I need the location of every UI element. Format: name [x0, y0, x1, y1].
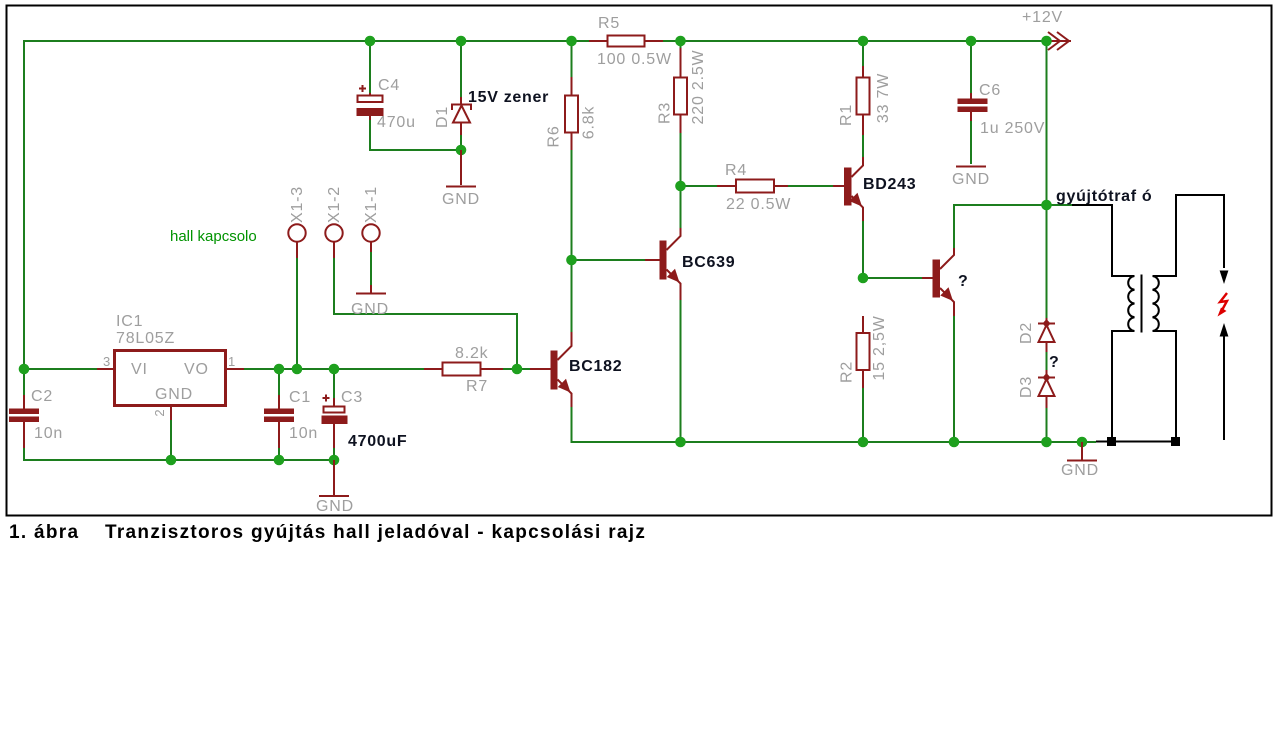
svg-text:D1: D1 — [434, 106, 451, 128]
svg-text:IC1: IC1 — [116, 313, 143, 330]
junction BD243 emitter/R2 node — [858, 273, 869, 284]
junction R2 at bus — [858, 437, 869, 448]
wire +12V down to trafo node — [1046, 41, 1048, 205]
wire C4 bottom to D1 node — [370, 120, 461, 150]
spark symbol (red) — [1220, 293, 1227, 312]
resistor R1 — [838, 66, 892, 135]
svg-text:+12V: +12V — [1022, 9, 1063, 26]
junction D1 at +12V rail — [456, 36, 467, 47]
wire 5V rail middle — [244, 368, 424, 370]
wire C1 top — [278, 369, 280, 395]
svg-text:R4: R4 — [725, 162, 747, 179]
resistor R6 — [546, 77, 598, 150]
wire BC639 emitter down — [680, 300, 682, 442]
wire D2 to D3 — [1046, 345, 1048, 374]
junction C2 at 5V rail — [19, 364, 30, 375]
transformer T1 ignition coil — [1072, 195, 1224, 440]
svg-text:33 7W: 33 7W — [875, 73, 892, 123]
svg-text:GND: GND — [155, 386, 193, 403]
wire R4 to BD243 base — [788, 185, 833, 187]
junction X1-2 wire at 5V rail — [512, 364, 523, 375]
spark gap lower arrow and line — [1220, 323, 1229, 337]
svg-text:2: 2 — [152, 409, 167, 416]
svg-text:R3: R3 — [657, 102, 674, 124]
svg-text:3: 3 — [103, 354, 110, 369]
junction GND at bus — [1077, 437, 1088, 448]
junction +12V rail right corner — [1041, 36, 1052, 47]
svg-text:C2: C2 — [31, 388, 53, 405]
svg-text:6.8k: 6.8k — [581, 106, 598, 140]
junction Q? emitter at bus — [949, 437, 960, 448]
svg-text:10n: 10n — [34, 425, 63, 442]
wire C3 top — [333, 369, 335, 398]
junction D3 at bus — [1041, 437, 1052, 448]
svg-text:8.2k: 8.2k — [455, 345, 489, 362]
wire Q? collector to trafo node — [954, 205, 1047, 248]
wire R2 bottom to bus — [862, 388, 864, 442]
svg-text:C1: C1 — [289, 389, 311, 406]
svg-text:X1-1: X1-1 — [363, 186, 380, 223]
resistor R2 — [839, 315, 889, 388]
junction X1-3 at 5V rail — [292, 364, 303, 375]
svg-text:GND: GND — [316, 498, 354, 515]
black junction dot left — [1107, 437, 1116, 446]
svg-text:4700uF: 4700uF — [348, 433, 407, 450]
wire C1 bottom — [278, 448, 280, 460]
resistor R3 — [657, 48, 708, 133]
svg-text:BC639: BC639 — [682, 254, 735, 271]
spark gap upper arrow — [1220, 271, 1229, 285]
wire BD243 emitter to node — [862, 221, 864, 278]
svg-text:X1-3: X1-3 — [289, 186, 306, 223]
svg-text:VI: VI — [131, 361, 148, 378]
svg-text:Tranzisztoros gyújtás hall jel: Tranzisztoros gyújtás hall jeladóval - k… — [105, 522, 646, 543]
wire trafo node right — [1047, 204, 1073, 206]
capacitor C2 — [9, 388, 63, 448]
junction C4/D1/GND node — [456, 145, 467, 156]
wire D1 top — [460, 41, 462, 97]
resistor R5 — [589, 15, 672, 68]
svg-text:15V zener: 15V zener — [468, 89, 549, 106]
junction C1 at 5V rail — [274, 364, 285, 375]
wire D1 bottom — [460, 135, 462, 150]
junction C6 at +12V rail — [966, 36, 977, 47]
svg-text:470u: 470u — [377, 114, 416, 131]
wire top rail right part — [663, 40, 1047, 42]
capacitor C1 — [264, 389, 318, 448]
svg-text:BD243: BD243 — [863, 176, 916, 193]
junction BC639 emitter at bus — [675, 437, 686, 448]
svg-text:1u 250V: 1u 250V — [980, 120, 1045, 137]
svg-text:R6: R6 — [546, 125, 563, 147]
wire bottom ground bus (left section) — [24, 448, 334, 460]
svg-text:1: 1 — [228, 354, 235, 369]
wire 5V rail left — [24, 368, 97, 370]
wire C3 bottom — [333, 448, 335, 460]
svg-text:hall kapcsolo: hall kapcsolo — [170, 228, 257, 245]
connector pad X1-3 — [288, 186, 306, 258]
svg-text:X1-2: X1-2 — [326, 186, 343, 223]
svg-text:R5: R5 — [598, 15, 620, 32]
wire R1 top — [862, 41, 864, 66]
svg-text:GND: GND — [1061, 462, 1099, 479]
connector pad X1-1 — [362, 186, 380, 252]
junction C3 at 5V rail — [329, 364, 340, 375]
svg-text:78L05Z: 78L05Z — [116, 330, 175, 347]
wire R3 bottom to R4 node — [681, 133, 718, 186]
svg-text:C4: C4 — [378, 77, 400, 94]
capacitor C3 electrolytic 4700uF — [322, 389, 408, 450]
wire X1-1 down — [370, 252, 372, 285]
svg-text:gyújtótraf ó: gyújtótraf ó — [1056, 188, 1152, 205]
svg-text:GND: GND — [351, 301, 389, 318]
capacitor C6 — [958, 82, 1046, 137]
node +12V arrow — [1022, 9, 1071, 50]
svg-text:R2: R2 — [839, 361, 856, 383]
ground under C3 — [316, 460, 354, 515]
svg-text:BC182: BC182 — [569, 358, 622, 375]
junction R3/R4/BC639 collector node — [675, 181, 686, 192]
transistor Q BC639 — [645, 228, 735, 300]
svg-text:15 2,5W: 15 2,5W — [871, 315, 888, 380]
junction C3 at ground bus — [329, 455, 340, 466]
svg-text:100 0.5W: 100 0.5W — [597, 51, 672, 68]
junction ignition coil node — [1041, 200, 1052, 211]
wire R7 to BC182 base — [503, 368, 530, 370]
ground under X1-1 — [351, 285, 389, 318]
svg-text:?: ? — [1049, 354, 1059, 371]
wire R6 bottom to BC639 base node — [572, 150, 646, 260]
svg-text:GND: GND — [952, 171, 990, 188]
junction C4 at +12V rail — [365, 36, 376, 47]
wire IC1 pin2 down — [170, 420, 172, 460]
wire BC639 collector up — [680, 187, 682, 228]
svg-text:R7: R7 — [466, 378, 488, 395]
svg-text:R1: R1 — [838, 104, 855, 126]
junction C1 at ground bus — [274, 455, 285, 466]
wire top +12V rail left part — [24, 41, 589, 369]
wire emitter bus (right section) — [572, 407, 1097, 442]
transistor Q BC182 — [530, 332, 622, 407]
svg-text:10n: 10n — [289, 425, 318, 442]
svg-text:VO: VO — [184, 361, 209, 378]
wire node to Q? base — [863, 277, 922, 279]
wire R1 bottom to BD243 collector — [862, 135, 864, 157]
diode D3 — [1018, 370, 1055, 408]
wire C6 bottom to GND — [970, 121, 972, 164]
black junction dot right — [1171, 437, 1180, 446]
svg-text:GND: GND — [442, 191, 480, 208]
junction IC1 pin2 at ground bus — [166, 455, 177, 466]
svg-text:1. ábra: 1. ábra — [9, 522, 79, 543]
ground under C6 — [952, 167, 990, 189]
resistor R4 — [717, 162, 791, 213]
svg-text:22 0.5W: 22 0.5W — [726, 196, 791, 213]
transistor Q BD243 — [833, 157, 916, 221]
wire R6 top — [571, 41, 573, 77]
capacitor C4 — [357, 77, 416, 131]
diode D1 zener 15V — [434, 89, 549, 135]
svg-text:D2: D2 — [1018, 322, 1035, 344]
junction R6/R5 at +12V rail — [566, 36, 577, 47]
ground at bottom right — [1061, 442, 1099, 479]
wire C6 top — [970, 41, 972, 93]
wire trafo node to D2 — [1046, 205, 1048, 318]
transistor Q? unknown — [922, 248, 968, 316]
resistor R7 — [424, 345, 503, 395]
svg-text:C3: C3 — [341, 389, 363, 406]
wire X1-3 down — [296, 258, 298, 369]
svg-text:C6: C6 — [979, 82, 1001, 99]
diode D2 — [1018, 318, 1055, 352]
junction R1 at +12V rail — [858, 36, 869, 47]
junction R5/R3 at +12V rail — [675, 36, 686, 47]
wire D3 to bus — [1046, 399, 1048, 442]
black bus segment — [1096, 441, 1177, 443]
wire R3 top — [680, 41, 682, 48]
svg-text:220 2.5W: 220 2.5W — [690, 49, 707, 124]
svg-text:?: ? — [958, 273, 968, 290]
svg-text:D3: D3 — [1018, 376, 1035, 398]
wire C4 top — [369, 41, 371, 93]
IC1 78L05Z regulator — [97, 313, 244, 420]
wire node to BC182 collector — [571, 260, 573, 332]
connector pad X1-2 — [325, 186, 343, 258]
junction R6/BC639 base node — [566, 255, 577, 266]
wire Q? emitter down — [953, 316, 955, 442]
wire X1-2 down and over — [334, 258, 517, 369]
wire C2 top — [23, 369, 25, 395]
ground under D1 — [442, 150, 480, 208]
